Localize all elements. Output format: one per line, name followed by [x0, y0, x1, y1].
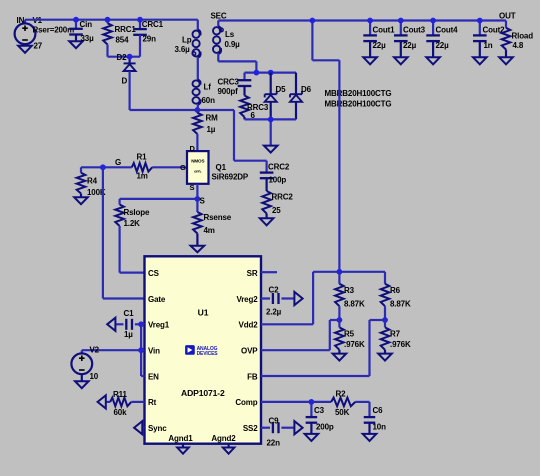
svg-text:D: D: [190, 144, 196, 153]
ground of Cout1: [363, 57, 377, 64]
diode D5: [265, 73, 277, 120]
node dot D5 top: [268, 70, 274, 76]
wire Vdd2 up to divider: [261, 272, 339, 325]
svg-text:IN: IN: [17, 16, 25, 25]
svg-text:D5: D5: [276, 85, 287, 94]
node dot D5 bottom: [268, 117, 274, 123]
wire top-right rail: [218, 19, 506, 21]
svg-text:33µ: 33µ: [81, 34, 95, 43]
svg-text:1µ: 1µ: [207, 125, 216, 134]
svg-text:1µ: 1µ: [124, 330, 133, 339]
wire secondary snubber bottom rail: [245, 119, 297, 145]
wire Rslope to CS: [120, 272, 145, 274]
svg-text:1m: 1m: [137, 172, 148, 181]
svg-text:OUT: OUT: [499, 11, 516, 20]
ground of RRC2: [260, 218, 274, 225]
capacitor C9: [261, 422, 294, 433]
resistor Rsense: [193, 199, 202, 246]
svg-text:RM: RM: [206, 114, 219, 123]
svg-text:2.2µ: 2.2µ: [266, 307, 282, 316]
svg-text:25: 25: [272, 206, 281, 215]
svg-text:SR: SR: [247, 269, 258, 278]
svg-text:FB: FB: [247, 372, 258, 381]
svg-text:854: 854: [116, 35, 130, 44]
resistor R2: [331, 398, 355, 407]
wire secondary snubber top rail: [245, 71, 297, 73]
svg-text:G: G: [180, 163, 186, 172]
svg-text:R2: R2: [336, 389, 347, 398]
inductor Lf: [193, 80, 201, 111]
svg-text:Rslope: Rslope: [124, 208, 150, 217]
node dot RRC1 top: [105, 17, 111, 23]
wire RM node to CRC2: [197, 110, 266, 161]
wire top-left rail: [25, 19, 198, 21]
inductor Ls: [213, 21, 256, 73]
capacitor Cin: [69, 20, 83, 42]
svg-text:CRC2: CRC2: [268, 162, 290, 171]
ground of V1: [18, 46, 32, 53]
resistor RRC1: [103, 20, 112, 57]
svg-text:Ls: Ls: [225, 30, 235, 39]
capacitor Cout4: [426, 21, 440, 58]
capacitor C6: [364, 402, 376, 434]
svg-text:50K: 50K: [335, 408, 350, 417]
svg-text:60k: 60k: [114, 408, 128, 417]
node dot Vreg1: [138, 321, 144, 327]
node dot Cout1: [367, 18, 373, 24]
svg-text:100p: 100p: [269, 176, 287, 185]
svg-text:S: S: [190, 183, 195, 192]
svg-text:NMOS: NMOS: [191, 159, 204, 164]
svg-text:enh.: enh.: [194, 170, 201, 174]
svg-text:22µ: 22µ: [373, 41, 387, 50]
svg-text:Agnd1: Agnd1: [168, 434, 193, 443]
resistor R1: [132, 163, 152, 172]
ground of secondary snubber: [264, 146, 278, 153]
node dot R6-R7: [382, 317, 388, 323]
ground of Cout4: [426, 57, 440, 64]
resistor R6: [381, 272, 390, 320]
voltage source V2: [71, 350, 141, 381]
svg-text:22µ: 22µ: [436, 41, 450, 50]
capacitor Cout1: [363, 21, 377, 58]
svg-text:Cout1: Cout1: [373, 25, 396, 34]
ground of Cin: [69, 41, 83, 48]
resistor Rslope: [115, 199, 124, 273]
node dot G: [100, 164, 106, 170]
svg-text:Agnd2: Agnd2: [211, 434, 236, 443]
node dot SEC rail: [310, 18, 316, 24]
svg-text:27: 27: [34, 41, 43, 50]
svg-text:1n: 1n: [484, 41, 493, 50]
node dot S: [195, 196, 201, 202]
resistor R4: [77, 167, 86, 197]
svg-text:200p: 200p: [316, 422, 334, 431]
svg-text:C6: C6: [373, 406, 384, 415]
svg-text:Rsense: Rsense: [204, 213, 232, 222]
svg-text:Rser=200m: Rser=200m: [33, 26, 75, 35]
svg-text:S: S: [200, 196, 206, 205]
svg-text:.976K: .976K: [344, 340, 365, 349]
svg-text:10n: 10n: [373, 422, 387, 431]
ground of R11: [98, 395, 106, 408]
svg-text:SS2: SS2: [243, 424, 258, 433]
node dot Cout4: [430, 18, 436, 24]
wire D2 to RM node: [130, 109, 198, 111]
node dot CRC1 top: [137, 17, 143, 23]
svg-text:CS: CS: [148, 269, 160, 278]
svg-text:Vin: Vin: [148, 347, 160, 356]
svg-text:C1: C1: [124, 309, 135, 318]
phase dot Ls: [220, 28, 224, 32]
diode D6: [290, 73, 302, 120]
svg-text:29n: 29n: [143, 34, 157, 43]
wire SR stub: [261, 271, 277, 273]
phase dot Lp: [192, 52, 195, 55]
svg-text:U1: U1: [198, 308, 209, 318]
svg-text:C9: C9: [269, 417, 280, 426]
resistor RM: [193, 110, 202, 151]
ground of Cout3: [394, 57, 408, 64]
svg-text:V2: V2: [90, 346, 100, 355]
svg-text:8.87K: 8.87K: [390, 299, 411, 308]
ground of C3: [305, 434, 319, 441]
svg-text:22n: 22n: [267, 439, 281, 448]
svg-text:Vdd2: Vdd2: [239, 321, 259, 330]
svg-text:R5: R5: [344, 329, 355, 338]
transistor Q1: [187, 151, 209, 184]
resistor R5: [335, 320, 344, 354]
svg-text:0.9µ: 0.9µ: [225, 40, 241, 49]
svg-text:Q1: Q1: [216, 163, 227, 172]
wire Comp: [261, 401, 370, 403]
svg-text:OVP: OVP: [241, 347, 258, 356]
wire Vreg1-Vin-EN tie: [141, 324, 144, 376]
ground of R5: [333, 354, 347, 361]
wire snubber bottom: [108, 56, 141, 58]
ground of Cout2: [473, 57, 487, 64]
wire gate G: [81, 166, 187, 168]
wire OVP to divider: [261, 320, 339, 350]
svg-text:Comp: Comp: [235, 398, 257, 407]
svg-text:CRC3: CRC3: [218, 78, 240, 87]
svg-text:EN: EN: [148, 372, 159, 381]
op-amp U1 ADP1071-2 body: [145, 256, 262, 443]
svg-text:Rload: Rload: [512, 32, 534, 41]
node dot Cout3: [398, 18, 404, 24]
node dot R3-R5: [337, 317, 343, 323]
svg-text:RRC2: RRC2: [272, 193, 294, 202]
resistor Rload: [502, 21, 511, 58]
svg-text:G: G: [115, 158, 121, 167]
svg-text:Cin: Cin: [80, 20, 93, 29]
node dot D2: [127, 54, 133, 60]
svg-text:CRC1: CRC1: [142, 20, 164, 29]
svg-text:3.6µ: 3.6µ: [175, 45, 191, 54]
node dot Ls bottom: [254, 70, 260, 76]
svg-text:R11: R11: [113, 390, 127, 399]
svg-text:Sync: Sync: [148, 424, 167, 433]
svg-text:R7: R7: [390, 329, 401, 338]
svg-text:DEVICES: DEVICES: [197, 351, 219, 357]
svg-text:SiR692DP: SiR692DP: [212, 173, 249, 182]
svg-text:Rt: Rt: [148, 398, 157, 407]
ground Agnd1: [177, 444, 189, 454]
capacitor CRC2: [260, 161, 274, 191]
wire G to Gate pin: [103, 167, 145, 298]
svg-text:C3: C3: [314, 406, 325, 415]
capacitor C2: [261, 293, 294, 304]
resistor R11: [106, 398, 145, 407]
capacitor Cout2: [473, 21, 487, 58]
ground of C2: [294, 292, 302, 305]
ground of C1: [107, 318, 115, 331]
resistor R3: [335, 272, 344, 320]
capacitor CRC1: [133, 20, 147, 57]
svg-text:Lf: Lf: [204, 82, 212, 91]
resistor RRC2: [262, 191, 271, 218]
svg-text:R6: R6: [390, 286, 401, 295]
wire SEC down to divider: [312, 21, 339, 272]
resistor R7: [381, 320, 390, 354]
capacitor Cout3: [394, 21, 408, 58]
inductor Lp: [193, 20, 201, 80]
svg-text:.976K: .976K: [390, 340, 411, 349]
node dot Lf-RM-D: [195, 107, 201, 113]
svg-text:SEC: SEC: [211, 12, 227, 21]
svg-text:D: D: [122, 76, 128, 85]
resistor RRC3: [240, 96, 249, 120]
node dot Cin: [73, 17, 79, 23]
svg-text:D2: D2: [117, 53, 128, 62]
voltage source V1: [15, 20, 36, 46]
wire divider top to R6: [339, 271, 385, 273]
ground of V2: [75, 381, 89, 388]
ground of C6: [363, 434, 377, 441]
ground of C9: [294, 421, 302, 434]
ground of R7: [378, 354, 392, 361]
capacitor C1: [115, 319, 141, 330]
svg-text:4.8: 4.8: [513, 41, 524, 50]
wire source node: [120, 184, 198, 199]
svg-text:1.2K: 1.2K: [124, 219, 141, 228]
svg-text:C2: C2: [269, 285, 280, 294]
svg-text:R1: R1: [137, 152, 148, 161]
svg-text:Vreg1: Vreg1: [148, 321, 170, 330]
capacitor CRC3: [238, 73, 252, 96]
node dot C3: [309, 399, 315, 405]
svg-text:10: 10: [90, 372, 99, 381]
svg-text:D6: D6: [301, 85, 312, 94]
svg-text:MBRB20H100CTG: MBRB20H100CTG: [325, 100, 392, 109]
svg-text:RRC1: RRC1: [115, 25, 137, 34]
svg-text:8.87K: 8.87K: [344, 299, 365, 308]
node dot Vin: [138, 347, 144, 353]
node dot divider top: [337, 269, 343, 275]
svg-text:ADP1071-2: ADP1071-2: [181, 388, 225, 398]
svg-text:Lp: Lp: [182, 36, 192, 45]
svg-text:22µ: 22µ: [403, 41, 417, 50]
svg-text:60n: 60n: [202, 96, 216, 105]
ground of Rload: [499, 57, 513, 64]
ground of Sync: [134, 421, 144, 434]
node dot Cout2: [477, 18, 483, 24]
ground of R4: [74, 197, 88, 204]
svg-text:Vreg2: Vreg2: [236, 295, 258, 304]
svg-text:MBRB20H100CTG: MBRB20H100CTG: [325, 89, 392, 98]
logo Analog Devices: [185, 345, 218, 357]
diode D2: [124, 57, 136, 110]
ground of Rsense: [191, 246, 205, 252]
svg-text:900pf: 900pf: [218, 87, 239, 96]
ground Agnd2: [223, 444, 235, 454]
wire FB to divider: [261, 320, 385, 376]
svg-text:R4: R4: [87, 177, 98, 186]
capacitor C3: [306, 402, 318, 434]
svg-text:Gate: Gate: [148, 295, 166, 304]
svg-text:Cout4: Cout4: [436, 25, 459, 34]
svg-text:4m: 4m: [204, 226, 215, 235]
svg-text:Cout3: Cout3: [403, 25, 426, 34]
svg-text:R3: R3: [344, 286, 355, 295]
